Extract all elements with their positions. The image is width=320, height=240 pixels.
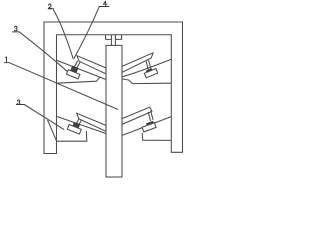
label 3 upper underline (13, 31, 20, 33)
label 3 lower digit (17, 100, 20, 104)
label 2 digit (49, 4, 52, 8)
leader line 4 (74, 7, 99, 59)
upper-left roller head (71, 66, 78, 72)
lower-right chute line (122, 117, 171, 136)
label 1 digit (6, 57, 7, 62)
upper-left roller foot (67, 70, 80, 79)
leader line 3 lower (24, 105, 64, 130)
shelf stub through left leg (48, 120, 57, 141)
upper-left shelf (57, 77, 100, 83)
column (central shaft) (106, 45, 122, 177)
upper-right shelf (133, 82, 172, 84)
upper-right roller head (147, 69, 153, 75)
cap flange (106, 35, 122, 40)
upper-right chute line (122, 59, 172, 77)
label 3 upper digit (14, 26, 17, 31)
lower-left shelf (57, 131, 87, 141)
label 3 lower underline (16, 104, 24, 106)
lower-left plate (77, 113, 106, 131)
upper-left roller stem (74, 61, 80, 69)
tank frame U-channel (44, 22, 183, 154)
leader line 2 (53, 9, 73, 59)
upper-right roller foot (144, 69, 157, 78)
lower-right roller stem (148, 111, 153, 121)
label 4 underline (99, 6, 109, 8)
cap stem (111, 35, 115, 46)
lower-right roller head (147, 122, 154, 128)
lower-left roller stem (75, 119, 81, 127)
lower-right plate (122, 107, 152, 124)
upper-left chute line (57, 60, 106, 79)
upper-right plate (122, 53, 153, 73)
upper-left plate (77, 56, 106, 74)
label 1 underline (4, 62, 9, 64)
label 4 digit (103, 1, 106, 6)
leader line 3 upper (19, 32, 68, 72)
label 2 underline (48, 8, 54, 10)
leader line 1 (9, 63, 118, 110)
upper-right shelf fold (122, 79, 133, 84)
lower-right shelf (142, 133, 171, 140)
upper-right roller stem (146, 60, 151, 70)
lower-left roller foot (67, 125, 81, 135)
lower-left chute line (57, 116, 106, 133)
lower-left roller head (73, 123, 80, 129)
lower-right roller foot (142, 123, 156, 132)
